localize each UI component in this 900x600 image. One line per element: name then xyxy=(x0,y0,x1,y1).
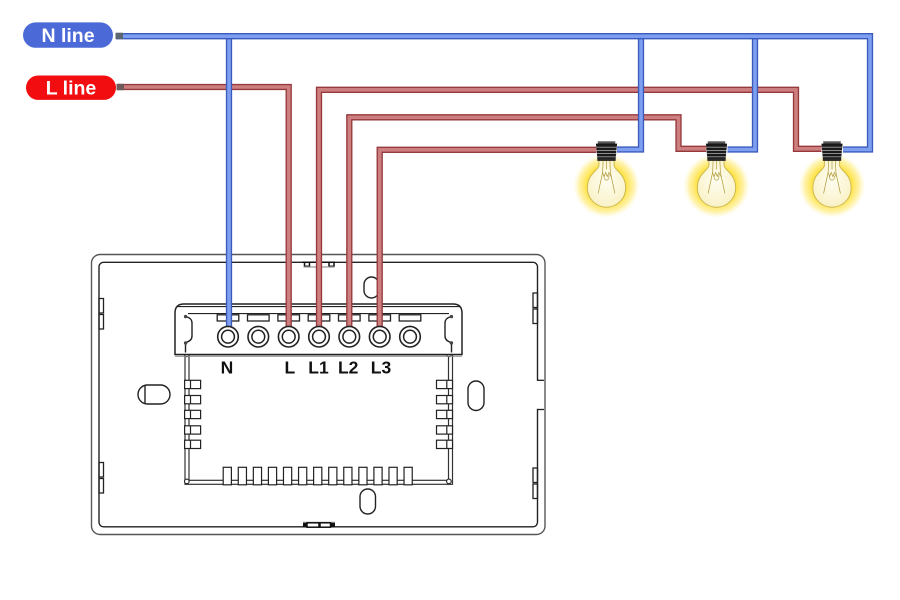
svg-text:L: L xyxy=(284,358,295,378)
svg-text:N line: N line xyxy=(41,25,94,47)
svg-text:L1: L1 xyxy=(308,358,329,378)
svg-text:L2: L2 xyxy=(338,358,359,378)
svg-text:N: N xyxy=(221,358,234,378)
svg-text:L line: L line xyxy=(46,78,97,100)
svg-text:L3: L3 xyxy=(371,358,392,378)
